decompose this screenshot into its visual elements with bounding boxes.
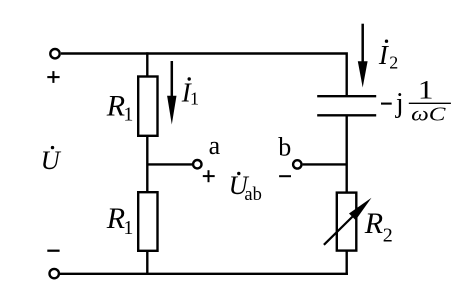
current arrow I1 (167, 61, 176, 125)
variable arrow through R2 (324, 198, 372, 245)
wire bottom (59, 273, 348, 275)
svg-text:1: 1 (190, 89, 199, 109)
svg-text:b: b (278, 133, 291, 162)
svg-text:1: 1 (418, 76, 434, 105)
label I1 (181, 77, 199, 108)
wire left branch upper (146, 52, 148, 76)
label R1 bottom (106, 202, 134, 239)
node a (193, 160, 201, 168)
label I2 (378, 40, 398, 73)
svg-text:a: a (209, 131, 221, 160)
resistor R2 (variable) (337, 193, 357, 251)
wire top (61, 54, 347, 97)
wire left branch lower (146, 251, 148, 275)
current arrow I2 (358, 24, 368, 88)
svg-text:R: R (106, 202, 125, 235)
resistor R1 (top) (138, 77, 157, 136)
label R1 top (106, 90, 134, 126)
label Uab (229, 170, 262, 205)
wire to node a (147, 163, 192, 165)
svg-text:ωC: ωC (411, 103, 446, 125)
plus sign at node a (203, 170, 215, 182)
svg-text:2: 2 (383, 225, 393, 247)
wire from node b (303, 163, 347, 165)
wire left branch middle (146, 136, 148, 192)
capacitor C bottom plate (317, 114, 376, 116)
terminal top-left (50, 49, 59, 58)
wire right branch middle (346, 115, 348, 192)
svg-text:1: 1 (123, 104, 133, 126)
source label U dot (41, 145, 62, 175)
terminal bottom-left (50, 269, 59, 278)
resistor R1 (bottom) (138, 192, 157, 251)
svg-text:R: R (106, 90, 125, 123)
label -j 1/wC (381, 76, 451, 126)
svg-text:1: 1 (123, 217, 133, 239)
svg-text:U: U (41, 145, 62, 175)
minus sign at node b (279, 175, 291, 177)
svg-text:2: 2 (389, 53, 398, 73)
svg-text:ab: ab (244, 185, 261, 205)
plus sign at top-left terminal (47, 71, 59, 83)
node b (293, 160, 301, 168)
label R2 (364, 207, 393, 247)
svg-text:j: j (395, 88, 404, 119)
wire right branch lower (346, 251, 348, 275)
svg-text:R: R (364, 207, 383, 240)
minus sign at bottom-left terminal (47, 250, 59, 252)
capacitor C top plate (317, 95, 376, 97)
